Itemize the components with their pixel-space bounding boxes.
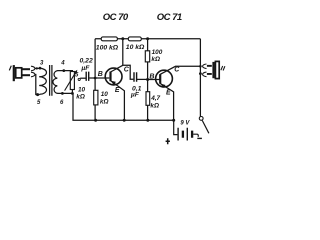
svg-text:B: B: [149, 74, 154, 81]
svg-text:9 V: 9 V: [180, 121, 190, 127]
svg-text:0,22: 0,22: [80, 58, 93, 65]
svg-text:10: 10: [101, 91, 109, 98]
svg-text:OC 71: OC 71: [157, 12, 182, 23]
svg-text:B: B: [98, 71, 103, 78]
svg-text:E: E: [166, 90, 171, 97]
svg-text:4: 4: [60, 61, 65, 67]
svg-text:E: E: [115, 87, 120, 94]
svg-text:kΩ: kΩ: [76, 93, 85, 100]
svg-text:4,7: 4,7: [150, 95, 160, 102]
svg-text:10 kΩ: 10 kΩ: [126, 44, 145, 51]
svg-text:OC 70: OC 70: [103, 12, 129, 23]
svg-text:kΩ: kΩ: [151, 56, 160, 63]
svg-text:10: 10: [78, 86, 86, 93]
svg-text:100: 100: [152, 49, 163, 56]
svg-text:100 kΩ: 100 kΩ: [96, 45, 119, 52]
svg-text:µF: µF: [130, 91, 140, 98]
svg-text:kΩ: kΩ: [150, 103, 159, 110]
svg-text:µF: µF: [80, 65, 90, 72]
svg-text:kΩ: kΩ: [100, 99, 109, 106]
